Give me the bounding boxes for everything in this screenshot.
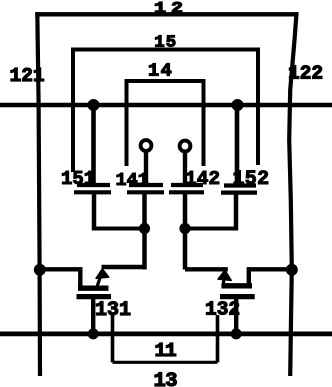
transistor 131 source bend down	[78, 267, 82, 287]
transistor 131 gate bar	[77, 294, 112, 299]
svg-text:131: 131	[95, 299, 131, 322]
wire net-14 horizontal	[125, 79, 206, 83]
svg-text:14: 14	[148, 61, 173, 82]
wire from left terminal down to cap 141	[144, 152, 148, 187]
transistor 131 channel bar	[78, 286, 109, 291]
wire net-15 right vertical drop to cap 152	[256, 48, 260, 166]
wire cap 142 bottom lead down to transistor 132 drain	[183, 192, 188, 270]
wire net-14 left vertical drop to cap 141	[125, 79, 129, 166]
capacitor 151 top plate	[77, 183, 110, 187]
capacitor 152 top plate	[224, 183, 256, 187]
transistor 132 channel bar	[222, 283, 253, 288]
junction dot node A	[139, 223, 150, 234]
wire bus node upper horizontal rail	[0, 103, 332, 108]
svg-text:132: 132	[205, 299, 240, 321]
capacitor 142 top plate	[171, 183, 203, 187]
junction dot left rail source node	[34, 264, 46, 276]
wire bottom horizontal rail net-13	[0, 332, 332, 337]
svg-text:11: 11	[155, 340, 177, 362]
wire net-15 left vertical drop to cap 151	[71, 48, 75, 173]
svg-text:152: 152	[233, 168, 270, 191]
capacitor 151 bottom plate	[74, 190, 111, 194]
transistor 132 gate lead down	[234, 297, 238, 334]
svg-text:121: 121	[10, 65, 45, 87]
capacitor 141 top plate	[129, 183, 163, 187]
svg-text:141: 141	[116, 170, 149, 191]
wire left rail 121 vertical	[37, 12, 40, 376]
wire cap 152 bottom lead down	[234, 193, 239, 231]
terminal circle right	[180, 141, 191, 152]
wire right rail 122 vertical	[289, 12, 296, 376]
wire net-11 bracket right vertical	[216, 315, 220, 362]
svg-text:15: 15	[154, 34, 177, 53]
svg-text:13: 13	[154, 370, 178, 387]
wire from right terminal down to cap 142	[183, 152, 187, 186]
transistor 132 source wire to right rail	[247, 267, 293, 271]
svg-text:122: 122	[288, 63, 323, 85]
wire horizontal from 152 lead to node B	[184, 227, 238, 231]
capacitor 141 bottom plate	[127, 190, 164, 194]
wire net-14 right vertical drop to cap 142	[202, 79, 206, 166]
junction dot bottom rail right	[231, 328, 242, 339]
wire net-11 bracket left vertical	[111, 315, 115, 362]
transistor 131 drain wire horizontal	[102, 265, 145, 269]
capacitor 142 bottom plate	[169, 190, 204, 194]
svg-text:142: 142	[185, 168, 220, 190]
transistor 132 drain arrow	[218, 270, 231, 286]
svg-text:151: 151	[61, 168, 95, 190]
svg-text:12: 12	[154, 0, 188, 18]
junction dot node B	[179, 223, 190, 234]
transistor 132 gate bar	[220, 294, 255, 299]
wire cap 141 bottom lead down to transistor 131 drain	[142, 192, 147, 270]
junction dot bottom rail left	[88, 328, 99, 339]
junction dot right rail source node	[286, 264, 298, 276]
junction dot on upper rail left	[88, 99, 100, 111]
wire cap 151 bottom lead down	[92, 192, 97, 231]
transistor 131 source wire from left rail	[40, 267, 82, 271]
transistor 131 drain arrow	[96, 269, 109, 287]
transistor 132 drain wire horizontal	[185, 267, 228, 271]
wire from left upper dot down to cap 151	[91, 105, 96, 185]
terminal circle left	[141, 140, 152, 151]
wire horizontal from 151 lead to node A	[92, 227, 146, 231]
transistor 132 source bend down	[247, 267, 251, 287]
capacitor 152 bottom plate	[221, 191, 257, 195]
wire net-15 horizontal	[71, 48, 260, 52]
wire net-11 bracket bottom horizontal	[113, 361, 218, 364]
transistor 131 gate lead down	[91, 297, 95, 334]
wire net-12 top horizontal	[35, 12, 298, 16]
junction dot on upper rail right	[232, 99, 244, 111]
wire from right upper dot down to cap 152	[235, 105, 240, 185]
